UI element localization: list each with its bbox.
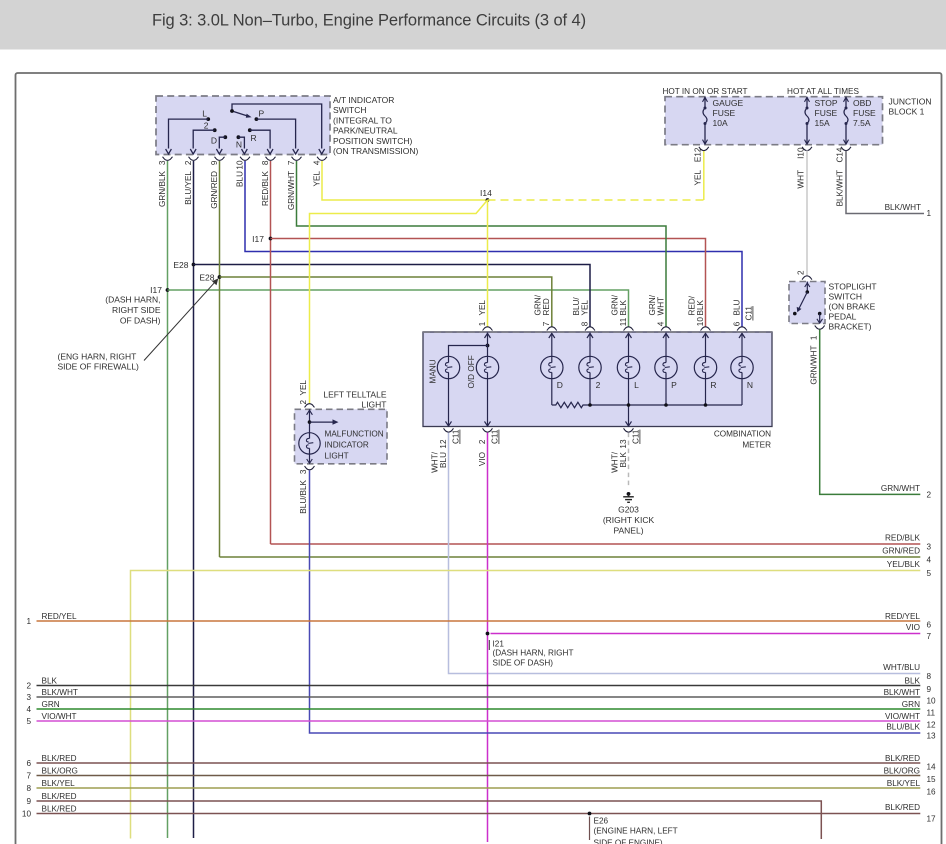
svg-text:N: N xyxy=(236,140,242,150)
svg-text:WHT/BLU: WHT/BLU xyxy=(883,663,920,672)
svg-text:BLK/WHT: BLK/WHT xyxy=(884,688,920,697)
svg-text:BLK/RED: BLK/RED xyxy=(42,804,77,813)
svg-text:15A: 15A xyxy=(815,118,830,128)
svg-text:BLK: BLK xyxy=(619,299,628,315)
svg-text:7: 7 xyxy=(26,772,31,781)
svg-text:FUSE: FUSE xyxy=(815,108,838,118)
node I17 on RED/BLK xyxy=(269,237,273,241)
connector bump I10 xyxy=(802,147,812,151)
A/T switch wiper arm xyxy=(232,111,250,117)
svg-text:5: 5 xyxy=(927,569,932,578)
meter top arrow pin 7 xyxy=(551,333,553,344)
meter lamp L feed xyxy=(628,344,630,356)
meter lamp R feed xyxy=(705,344,707,356)
svg-text:BLU: BLU xyxy=(732,299,741,315)
svg-text:BLU: BLU xyxy=(439,452,448,468)
indicator lamp L xyxy=(617,356,639,378)
indicator lamp N xyxy=(731,356,753,378)
svg-text:7: 7 xyxy=(542,321,551,326)
connector bump C14 xyxy=(841,147,851,151)
svg-text:3: 3 xyxy=(927,543,932,552)
svg-text:E28: E28 xyxy=(173,260,188,270)
svg-text:4: 4 xyxy=(26,705,31,714)
A/T pin arrow 1 xyxy=(166,149,172,154)
svg-text:RED: RED xyxy=(542,298,551,315)
svg-text:BLK/RED: BLK/RED xyxy=(42,792,77,801)
svg-text:10A: 10A xyxy=(713,118,728,128)
label I21 xyxy=(488,640,490,650)
svg-text:9: 9 xyxy=(26,797,31,806)
fuse STOP 15A xyxy=(805,97,810,102)
wire YEL from A/T to I14 xyxy=(322,161,488,200)
svg-text:(RIGHT KICK: (RIGHT KICK xyxy=(603,515,655,525)
svg-text:GRN/WHT: GRN/WHT xyxy=(287,171,296,210)
svg-text:YEL/BLK: YEL/BLK xyxy=(887,560,921,569)
telltale branch arrow xyxy=(310,421,334,423)
svg-text:VIO: VIO xyxy=(906,623,920,632)
svg-text:12: 12 xyxy=(439,439,448,449)
svg-text:BLK/ORG: BLK/ORG xyxy=(884,766,920,775)
svg-text:RED/BLK: RED/BLK xyxy=(885,534,921,543)
wire WHT/BLU xyxy=(449,433,921,674)
junction block 1 box xyxy=(665,97,883,145)
svg-text:GRN: GRN xyxy=(42,700,60,709)
svg-text:8: 8 xyxy=(26,784,31,793)
meter top arrow pin 4 xyxy=(665,333,667,344)
svg-text:GRN/RED: GRN/RED xyxy=(210,171,219,209)
meter top arrow pin 1 xyxy=(487,333,489,344)
A/T switch pivot dot xyxy=(230,109,234,113)
svg-text:P: P xyxy=(259,109,265,119)
svg-text:E26: E26 xyxy=(594,817,609,826)
svg-text:5: 5 xyxy=(26,717,31,726)
svg-text:14: 14 xyxy=(927,762,937,771)
wire VIO to right edge xyxy=(491,633,921,635)
label E26 xyxy=(589,817,591,841)
svg-text:VIO: VIO xyxy=(478,452,487,466)
svg-text:GAUGE: GAUGE xyxy=(713,98,744,108)
svg-text:BLK/RED: BLK/RED xyxy=(885,754,920,763)
A/T switch wiper arrowhead xyxy=(246,114,252,118)
wire YEL/BLK xyxy=(131,571,921,839)
svg-text:2: 2 xyxy=(26,682,31,691)
fuse OBD 7.5A xyxy=(844,97,849,102)
svg-text:C14: C14 xyxy=(836,147,845,162)
svg-text:1: 1 xyxy=(810,335,819,340)
svg-text:FUSE: FUSE xyxy=(853,108,876,118)
meter top bump pin 11 GRN/BLK xyxy=(624,327,634,331)
svg-text:13: 13 xyxy=(927,732,937,741)
wire BLK/RED row 6 xyxy=(37,762,921,764)
svg-text:C11: C11 xyxy=(491,429,500,444)
meter lamp 2 feed xyxy=(589,344,591,356)
svg-text:9: 9 xyxy=(210,160,219,165)
meter bottom bump pin 2 xyxy=(483,428,493,432)
svg-text:(ON TRANSMISSION): (ON TRANSMISSION) xyxy=(333,146,418,156)
svg-text:6: 6 xyxy=(26,759,31,768)
svg-text:(ENGINE HARN, LEFT: (ENGINE HARN, LEFT xyxy=(594,827,678,836)
svg-text:PARK/NEUTRAL: PARK/NEUTRAL xyxy=(333,126,398,136)
meter top bump pin 1 YEL xyxy=(483,327,493,331)
svg-text:YEL: YEL xyxy=(694,170,703,186)
svg-text:D: D xyxy=(211,136,217,146)
svg-text:BLK/RED: BLK/RED xyxy=(42,754,77,763)
telltale top bump xyxy=(305,404,315,408)
wire GRN/RED vertical xyxy=(219,161,221,557)
svg-text:C11: C11 xyxy=(745,306,754,321)
svg-text:N: N xyxy=(747,380,753,390)
svg-text:PANEL): PANEL) xyxy=(613,526,643,536)
svg-text:10: 10 xyxy=(22,810,32,819)
lamp 2 drop xyxy=(589,379,591,405)
A/T contact D xyxy=(223,135,227,139)
svg-text:G203: G203 xyxy=(618,505,639,515)
lamp D drop xyxy=(551,379,553,405)
svg-text:BLU: BLU xyxy=(235,171,244,187)
A/T pin arrow 2 xyxy=(190,149,196,154)
indicator lamp P xyxy=(655,356,677,378)
svg-text:(ENG HARN, RIGHT: (ENG HARN, RIGHT xyxy=(58,352,137,362)
A/T connector bump pin 4 xyxy=(317,157,327,161)
wire YEL E12 drop xyxy=(703,151,705,201)
wire BLU vertical xyxy=(245,161,742,327)
svg-text:1: 1 xyxy=(478,321,487,326)
wire BLK row 2 xyxy=(37,685,921,687)
svg-text:10: 10 xyxy=(696,317,705,327)
lamp R drop xyxy=(705,379,707,405)
wire GRN/BLK vertical xyxy=(167,161,169,838)
A/T indicator switch box xyxy=(156,96,330,155)
svg-text:2: 2 xyxy=(204,121,209,131)
wire BLK/WHT row 3 xyxy=(37,696,921,698)
svg-text:PEDAL: PEDAL xyxy=(829,312,857,322)
indicator lamp 2 xyxy=(579,356,601,378)
A/T pin arrow 7 xyxy=(319,149,325,154)
svg-text:OBD: OBD xyxy=(853,98,871,108)
A/T contact L xyxy=(206,117,210,121)
A/T connector bump pin 9 xyxy=(215,157,225,161)
wire VIO/WHT row 5 xyxy=(37,720,921,722)
svg-text:9: 9 xyxy=(927,685,932,694)
meter lamp P feed xyxy=(665,344,667,356)
node E28 on BLU/YEL xyxy=(192,263,196,267)
svg-text:BLK: BLK xyxy=(696,299,705,315)
A/T contact 2 xyxy=(213,128,217,132)
svg-text:Fig 3: 3.0L Non–Turbo, Engine: Fig 3: 3.0L Non–Turbo, Engine Performanc… xyxy=(152,12,586,30)
indicator lamp MANU xyxy=(437,356,459,378)
svg-text:6: 6 xyxy=(927,620,932,629)
svg-text:2: 2 xyxy=(478,439,487,444)
fuse GAUGE 10A xyxy=(703,97,708,102)
A/T pin arrow 5 xyxy=(267,149,273,154)
meter top arrow pin 10 xyxy=(705,333,707,344)
svg-text:BLOCK 1: BLOCK 1 xyxy=(889,107,925,117)
stoplight bottom bump xyxy=(815,326,825,330)
wire RED/BLK to right edge xyxy=(271,543,921,545)
svg-text:4: 4 xyxy=(656,321,665,326)
wire YEL I14 to telltale xyxy=(310,200,488,404)
svg-text:VIO/WHT: VIO/WHT xyxy=(885,712,920,721)
telltale feed arrow xyxy=(309,409,311,433)
svg-text:4: 4 xyxy=(312,160,321,165)
wire RED/YEL row 1 xyxy=(37,620,921,622)
wire WHT from I10 xyxy=(806,150,808,275)
svg-text:R: R xyxy=(251,133,257,143)
meter top arrow pin 11 xyxy=(628,333,630,344)
svg-text:2: 2 xyxy=(184,160,193,165)
node I14 xyxy=(486,198,490,202)
svg-text:17: 17 xyxy=(927,815,937,824)
svg-text:4: 4 xyxy=(927,556,932,565)
svg-text:SIDE OF ENGINE): SIDE OF ENGINE) xyxy=(594,839,663,844)
svg-text:RED/BLK: RED/BLK xyxy=(261,170,270,206)
svg-text:I17: I17 xyxy=(150,285,162,295)
svg-text:BLK/YEL: BLK/YEL xyxy=(887,779,921,788)
svg-text:WHT/: WHT/ xyxy=(430,451,439,473)
node I21 xyxy=(486,632,490,636)
svg-text:O/D OFF: O/D OFF xyxy=(467,355,476,388)
wire GRN row 4 xyxy=(37,708,921,710)
wire GRN/WHT to meter xyxy=(297,161,667,327)
svg-text:RED/YEL: RED/YEL xyxy=(885,612,920,621)
wire GRN/RED to right edge xyxy=(220,556,921,558)
svg-text:8: 8 xyxy=(261,160,270,165)
svg-text:E12: E12 xyxy=(694,147,703,162)
A/T connector bump pin 3 xyxy=(163,157,173,161)
svg-text:12: 12 xyxy=(927,720,937,729)
svg-text:I14: I14 xyxy=(480,188,492,198)
malfunction indicator lamp xyxy=(299,433,320,454)
svg-text:BLK/YEL: BLK/YEL xyxy=(42,779,76,788)
svg-text:BLK/WHT: BLK/WHT xyxy=(42,688,78,697)
wire BLU/YEL to meter xyxy=(194,265,591,327)
svg-text:LIGHT: LIGHT xyxy=(361,400,386,410)
svg-text:2: 2 xyxy=(927,491,932,500)
lamp P drop xyxy=(665,379,667,405)
svg-text:1: 1 xyxy=(927,209,932,218)
svg-text:3: 3 xyxy=(158,160,167,165)
svg-text:L: L xyxy=(634,380,639,390)
meter lamp feed pin1 junction xyxy=(486,344,490,348)
svg-text:SIDE OF FIREWALL): SIDE OF FIREWALL) xyxy=(58,362,140,372)
svg-text:8: 8 xyxy=(580,321,589,326)
svg-text:COMBINATION: COMBINATION xyxy=(714,430,771,439)
meter lamp D feed xyxy=(551,344,553,356)
svg-text:2: 2 xyxy=(596,380,601,390)
svg-text:SIDE OF DASH): SIDE OF DASH) xyxy=(493,659,554,668)
meter top bump pin 10 RED/BLK xyxy=(701,327,711,331)
svg-text:YEL: YEL xyxy=(312,171,321,187)
svg-text:2: 2 xyxy=(797,270,806,275)
svg-text:MALFUNCTION: MALFUNCTION xyxy=(325,430,384,439)
telltale bottom bump xyxy=(305,466,315,470)
svg-text:WHT/: WHT/ xyxy=(610,451,619,473)
A/T connector bump pin 2 xyxy=(189,157,199,161)
lamp L drop to pin 13 xyxy=(628,379,630,426)
svg-text:HOT IN ON OR START: HOT IN ON OR START xyxy=(662,87,747,96)
svg-text:6: 6 xyxy=(732,321,741,326)
meter top bump pin 4 GRN/WHT xyxy=(661,327,671,331)
lamp N drop xyxy=(741,379,743,405)
svg-text:YEL: YEL xyxy=(580,300,589,316)
stoplight switch box xyxy=(789,282,825,324)
svg-text:FUSE: FUSE xyxy=(713,108,736,118)
svg-text:OF DASH): OF DASH) xyxy=(120,316,161,326)
wire YEL I14 to meter xyxy=(487,200,489,327)
svg-text:GRN/RED: GRN/RED xyxy=(882,547,920,556)
wire BLK/ORG row 7 xyxy=(37,775,921,777)
indicator lamp D xyxy=(541,356,563,378)
A/T connector bump pin 10 xyxy=(240,157,250,161)
svg-text:BLU/BLK: BLU/BLK xyxy=(299,479,308,513)
svg-text:BLU/YEL: BLU/YEL xyxy=(184,171,193,205)
svg-text:11: 11 xyxy=(927,708,936,717)
stoplight wiper arm xyxy=(798,292,807,311)
svg-text:INDICATOR: INDICATOR xyxy=(325,441,369,450)
svg-text:10: 10 xyxy=(927,696,937,705)
wire BLU/BLK xyxy=(310,470,921,733)
svg-text:(ON BRAKE: (ON BRAKE xyxy=(829,302,876,312)
svg-text:D: D xyxy=(557,380,563,390)
svg-text:POSITION SWITCH): POSITION SWITCH) xyxy=(333,136,413,146)
wire WHT/BLK dashed to ground xyxy=(628,433,630,486)
svg-text:I17: I17 xyxy=(252,234,264,244)
svg-text:3: 3 xyxy=(299,469,308,474)
svg-text:YEL: YEL xyxy=(478,300,487,316)
lamp MANU drop to pin 12 xyxy=(448,379,450,426)
meter top arrow pin 6 xyxy=(741,333,743,344)
svg-text:(INTEGRAL TO: (INTEGRAL TO xyxy=(333,115,392,125)
meter bottom bump pin 12 xyxy=(444,428,454,432)
svg-text:BLK/WHT: BLK/WHT xyxy=(885,203,921,212)
meter dashed top edge xyxy=(423,331,772,333)
node E26 xyxy=(588,812,592,816)
svg-text:C11: C11 xyxy=(452,429,461,444)
lamp O/D OFF drop to pin 2 xyxy=(487,379,489,426)
svg-text:13: 13 xyxy=(619,439,628,449)
stoplight output contact xyxy=(818,312,822,316)
svg-text:BLK: BLK xyxy=(42,676,58,685)
A/T contact N xyxy=(237,135,241,139)
meter top bump pin 6 BLU xyxy=(737,327,747,331)
A/T contact R xyxy=(248,128,252,132)
svg-text:A/T INDICATOR: A/T INDICATOR xyxy=(333,95,394,105)
stoplight fixed contact top xyxy=(806,282,808,293)
wire YEL dashed I14 to E12 xyxy=(488,199,704,201)
svg-text:10: 10 xyxy=(235,160,244,170)
wire RED/BLK to meter xyxy=(271,239,706,327)
meter top bump pin 8 BLU/YEL xyxy=(585,327,595,331)
meter lamp bus xyxy=(589,404,742,406)
combination meter box xyxy=(423,332,772,427)
stoplight lower contact xyxy=(793,312,797,316)
A/T switch common feed line xyxy=(232,104,322,149)
svg-text:METER: METER xyxy=(742,441,771,450)
svg-text:(DASH HARN,: (DASH HARN, xyxy=(105,295,160,305)
svg-text:I10: I10 xyxy=(797,147,806,159)
left telltale light box xyxy=(295,409,388,464)
svg-text:GRN/BLK: GRN/BLK xyxy=(158,170,167,206)
svg-text:VIO/WHT: VIO/WHT xyxy=(42,712,77,721)
svg-text:7.5A: 7.5A xyxy=(853,118,871,128)
svg-text:2: 2 xyxy=(299,400,308,405)
svg-text:LEFT TELLTALE: LEFT TELLTALE xyxy=(323,390,386,400)
svg-text:8: 8 xyxy=(927,672,932,681)
telltale lamp to pin 3 xyxy=(309,454,311,463)
svg-text:STOP: STOP xyxy=(815,98,838,108)
svg-text:15: 15 xyxy=(927,775,937,784)
wire BLK/WHT from C14 xyxy=(846,151,924,214)
svg-text:L: L xyxy=(202,109,207,119)
svg-text:BRACKET): BRACKET) xyxy=(829,322,872,332)
wire BLU/YEL vertical xyxy=(193,161,195,838)
A/T pin arrow 6 xyxy=(293,149,299,154)
wire BLK/RED row 9 xyxy=(37,801,822,839)
A/T pin arrow 4 xyxy=(242,149,248,154)
svg-text:YEL: YEL xyxy=(299,380,308,396)
wire RED/BLK vertical xyxy=(270,161,272,544)
meter bottom bump pin 13 xyxy=(624,428,634,432)
svg-text:C11: C11 xyxy=(632,429,641,444)
callout arrow to E28 xyxy=(144,282,215,361)
svg-text:16: 16 xyxy=(927,787,937,796)
indicator lamp R xyxy=(694,356,716,378)
meter lamp N feed xyxy=(741,344,743,356)
svg-text:7: 7 xyxy=(287,160,296,165)
svg-text:BLK/WHT: BLK/WHT xyxy=(836,170,845,206)
svg-text:GRN: GRN xyxy=(902,700,920,709)
svg-text:3: 3 xyxy=(26,693,31,702)
svg-text:JUNCTION: JUNCTION xyxy=(889,97,932,107)
svg-text:GRN/WHT: GRN/WHT xyxy=(881,484,920,493)
svg-text:11: 11 xyxy=(619,317,628,326)
svg-text:I21: I21 xyxy=(493,640,505,649)
wire GRN/WHT from stoplight xyxy=(820,329,921,494)
svg-text:WHT: WHT xyxy=(797,170,806,189)
svg-text:BLK/ORG: BLK/ORG xyxy=(42,766,78,775)
node I17 on GRN/BLK xyxy=(166,288,170,292)
node E28 on GRN/RED xyxy=(218,275,222,279)
wire BLK/YEL row 8 xyxy=(37,787,921,789)
svg-text:RED/YEL: RED/YEL xyxy=(42,612,77,621)
indicator lamp O/D OFF xyxy=(476,356,498,378)
meter top arrow pin 8 xyxy=(589,333,591,344)
A/T pin arrow 3 xyxy=(216,149,222,154)
svg-text:SWITCH: SWITCH xyxy=(829,292,863,302)
stoplight top bump xyxy=(802,276,812,280)
svg-text:1: 1 xyxy=(26,617,31,626)
svg-text:RIGHT SIDE: RIGHT SIDE xyxy=(112,305,161,315)
svg-text:LIGHT: LIGHT xyxy=(325,452,349,461)
svg-text:WHT: WHT xyxy=(656,297,665,316)
wire BLK/RED row 10 xyxy=(37,813,921,815)
svg-text:(DASH HARN, RIGHT: (DASH HARN, RIGHT xyxy=(493,649,574,658)
svg-text:HOT AT ALL TIMES: HOT AT ALL TIMES xyxy=(787,87,859,96)
wire GRN/BLK to meter xyxy=(168,290,629,327)
resistor in meter xyxy=(552,402,589,407)
ground G203 symbol xyxy=(627,492,631,496)
svg-text:MANU: MANU xyxy=(429,359,438,383)
svg-text:R: R xyxy=(710,380,716,390)
wire GRN/RED to meter xyxy=(220,277,552,327)
svg-text:GRN/WHT: GRN/WHT xyxy=(810,346,819,385)
svg-text:BLK: BLK xyxy=(619,451,628,467)
A/T connector bump pin 8 xyxy=(266,157,276,161)
svg-text:P: P xyxy=(671,380,677,390)
svg-text:BLK/RED: BLK/RED xyxy=(885,803,920,812)
svg-text:STOPLIGHT: STOPLIGHT xyxy=(829,282,877,292)
meter top bump pin 7 GRN/RED xyxy=(547,327,557,331)
